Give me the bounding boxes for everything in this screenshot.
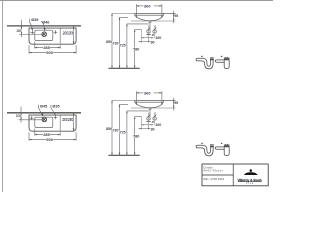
small dim row B 100	[142, 37, 154, 38]
small dim row C 90	[139, 41, 151, 42]
page top border	[0, 0, 273, 2]
basin outer outline (bottom plan view)	[29, 115, 76, 131]
small dim row B 100	[142, 124, 154, 125]
V&B logo underline	[238, 181, 262, 183]
dimension 100 wall-to-hole (bottom plan)	[19, 107, 44, 123]
svg-text:850: 850	[106, 40, 112, 44]
tap hole cross mark left (bottom plan)	[30, 116, 34, 120]
svg-text:360: 360	[144, 90, 151, 95]
svg-text:730: 730	[113, 42, 119, 46]
svg-text:725: 725	[120, 44, 126, 48]
deck separation line (bottom plan view)	[59, 115, 61, 131]
svg-text:725: 725	[120, 131, 126, 135]
bottle trap siphon icon (bottom)	[215, 144, 229, 156]
svg-text:360: 360	[144, 3, 151, 8]
leader from Ø35 to drain hole (top plan)	[29, 19, 33, 32]
dimension 285 bowl width (bottom plan)	[35, 129, 60, 136]
fixing hole left	[147, 30, 150, 33]
mini leader right fixing hole	[154, 27, 156, 30]
drain hole (bottom plan view)	[42, 117, 47, 122]
svg-text:Ø: Ø	[154, 112, 156, 115]
arrow above bottle trap (bottom)	[220, 143, 222, 144]
V&B logo crown ball	[250, 169, 252, 172]
leader from Ø45 to drain hole (bottom plan)	[38, 105, 43, 117]
svg-text:WE / 4708.4901: WE / 4708.4901	[203, 177, 225, 181]
dimension 100 wall-to-hole (top plan)	[19, 20, 44, 38]
rim top extension line (bottom front)	[112, 99, 175, 101]
svg-text:500: 500	[46, 137, 53, 142]
leader from Ø35 to tap mark (bottom plan)	[51, 105, 56, 116]
arrow above P-trap (bottom)	[201, 143, 203, 144]
svg-text:90: 90	[151, 40, 155, 44]
svg-text:850: 850	[106, 127, 112, 131]
page left border	[2, 0, 4, 192]
height line 850 (top front)	[111, 13, 113, 68]
dimension 500 overall width (bottom plan)	[29, 132, 76, 140]
dimension 360 width (bottom front view)	[136, 91, 163, 105]
svg-text:95: 95	[174, 14, 178, 18]
svg-text:100: 100	[16, 29, 21, 33]
svg-text:200250: 200250	[63, 31, 75, 36]
P-trap coupling (bottom)	[210, 145, 214, 147]
svg-text:Ø: Ø	[148, 25, 150, 28]
height line 725 (bottom front)	[126, 111, 149, 155]
dimension 500 overall width (top plan)	[29, 45, 76, 53]
dimension 285 bowl width (top plan)	[35, 42, 60, 49]
svg-text:500: 500	[46, 50, 53, 55]
small dim row C 90	[139, 128, 151, 129]
P-trap siphon icon (bottom)	[196, 145, 213, 156]
basin front elevation (top)	[135, 13, 164, 22]
svg-text:580: 580	[133, 135, 139, 139]
dimension 360 width (top front view)	[136, 4, 163, 18]
tap hole cross mark (top plan view)	[54, 30, 58, 34]
fixing hole right	[153, 30, 156, 33]
bottle trap coupling (top)	[224, 58, 230, 60]
svg-text:100: 100	[155, 123, 161, 127]
reference line under basin (95 level, bottom)	[131, 107, 175, 109]
dimension 95 height of basin (top front)	[163, 11, 175, 23]
svg-text:Ø45: Ø45	[40, 104, 47, 108]
svg-text:4A43 43xxxx: 4A43 43xxxx	[203, 169, 223, 173]
mini leader left fixing hole	[148, 114, 150, 117]
wall line (bottom plan view)	[7, 112, 81, 114]
dimension 95 height of basin (bottom front)	[163, 98, 175, 110]
mini leader right fixing hole	[154, 114, 156, 117]
bowl inner outline (top plan view)	[35, 30, 53, 40]
leader from Ø46 to drain hole (top plan)	[41, 21, 45, 32]
dimension 200/250 depth (bottom plan)	[73, 113, 75, 131]
svg-text:200250: 200250	[62, 117, 74, 122]
P-trap siphon icon (top)	[196, 58, 213, 69]
drain centerline	[149, 110, 151, 117]
fixing hole centerlines	[148, 115, 150, 129]
title block horizontal divider	[202, 174, 233, 176]
svg-text:580: 580	[133, 48, 139, 52]
svg-text:Ø35: Ø35	[31, 18, 38, 22]
svg-text:100: 100	[16, 114, 21, 118]
height line 580 (bottom front)	[134, 117, 142, 156]
arrow above P-trap (top)	[201, 56, 203, 57]
arrow above bottle trap (top)	[220, 56, 222, 57]
svg-text:95: 95	[174, 101, 178, 105]
bowl inner outline (bottom plan view)	[35, 117, 53, 127]
dimension 200/250 depth (top plan)	[73, 26, 75, 44]
wall line (top plan view)	[7, 25, 81, 27]
V&B logo dome base	[244, 173, 258, 176]
deck separation line (top plan view)	[59, 28, 61, 44]
svg-text:Ø: Ø	[154, 25, 156, 28]
small dim row A	[146, 34, 151, 35]
title block frame	[202, 164, 268, 186]
fixing hole right	[153, 117, 156, 120]
height line 580 (top front)	[134, 30, 142, 69]
basin front elevation (bottom)	[135, 100, 164, 109]
bottle trap coupling (bottom)	[224, 145, 230, 147]
height line 730 (top front)	[119, 17, 128, 68]
mini leader left fixing hole	[148, 27, 150, 30]
V&B logo dome	[244, 172, 257, 175]
P-trap coupling (top)	[210, 58, 214, 60]
bottle trap siphon icon (top)	[215, 57, 229, 69]
basin outer outline (top plan view)	[29, 28, 76, 44]
tap centerline	[141, 117, 143, 130]
height line 730 (bottom front)	[119, 104, 128, 155]
small dim row A	[146, 121, 151, 122]
title block vertical divider	[232, 164, 234, 186]
tap centerline	[141, 30, 143, 43]
height line 850 (bottom front)	[111, 100, 113, 155]
drain centerline	[149, 23, 151, 30]
rim top extension line (top front)	[112, 12, 175, 14]
height line 725 (top front)	[126, 24, 149, 68]
floor line (bottom front)	[109, 154, 140, 156]
reference line under basin (95 level, top)	[131, 20, 175, 22]
svg-text:100: 100	[155, 36, 161, 40]
drain hole (top plan view)	[42, 32, 47, 37]
tap hole cross mark (bottom plan view)	[54, 116, 58, 120]
svg-text:90: 90	[151, 127, 155, 131]
fixing hole centerlines	[148, 28, 150, 42]
svg-text:730: 730	[113, 129, 119, 133]
svg-text:Ø: Ø	[148, 112, 150, 115]
svg-text:1748: 1748	[246, 183, 254, 185]
fixing hole left	[147, 117, 150, 120]
floor line (top front)	[109, 67, 140, 69]
tap hole cross mark left (top plan)	[30, 31, 34, 35]
svg-text:Ø35: Ø35	[52, 104, 59, 108]
